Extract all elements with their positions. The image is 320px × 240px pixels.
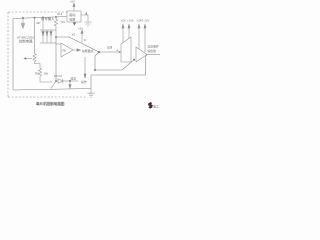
svg-text:电工: 电工 <box>153 104 159 109</box>
node J1 <box>22 17 24 19</box>
ground GND1 <box>84 22 92 26</box>
svg-text:+5V: +5V <box>78 26 83 30</box>
diode D1 <box>42 32 45 36</box>
svg-text:Rb: Rb <box>63 49 67 53</box>
wire rectifier bottom rail <box>40 42 56 44</box>
wire feedback outer <box>91 55 147 76</box>
arrow wire end <box>119 51 121 53</box>
wire center spine <box>55 37 57 81</box>
diode D1 branch wire <box>42 17 44 31</box>
op-amp U2 <box>61 43 73 57</box>
svg-text:+12V: +12V <box>127 19 134 23</box>
pin IC bottom <box>73 22 76 25</box>
comparator U3 <box>136 47 147 62</box>
svg-text:-12V: -12V <box>144 19 150 23</box>
svg-text:D: D <box>84 38 86 42</box>
wire diode out <box>63 80 78 82</box>
node RP top <box>34 17 35 18</box>
mux block A <box>121 37 131 62</box>
wire hook to rail <box>51 81 56 89</box>
node J4 <box>55 36 56 37</box>
wire base link <box>56 43 61 44</box>
node J3 <box>55 16 56 17</box>
svg-text:驱动: 驱动 <box>69 12 75 17</box>
arrow on wire <box>85 11 87 14</box>
wire output <box>147 54 160 56</box>
node J2 <box>42 17 43 18</box>
thermistor RT arrow <box>26 58 32 60</box>
svg-text:过流保护: 过流保护 <box>148 45 159 49</box>
arrow col2 <box>128 28 130 39</box>
signal arrow down <box>84 57 86 74</box>
svg-text:D5 C2: D5 C2 <box>54 74 62 78</box>
svg-text:IN 8: IN 8 <box>57 12 63 16</box>
wire rectifier top rail <box>40 29 56 31</box>
ground GND2 <box>88 89 95 98</box>
arrow input head <box>21 24 25 29</box>
thermistor RT body <box>33 54 40 69</box>
arrow input lead <box>22 18 24 23</box>
wire RP feed <box>34 18 36 54</box>
svg-text:续流: 续流 <box>71 77 77 81</box>
arrow IC top pin <box>73 7 75 12</box>
svg-text:+5V: +5V <box>70 0 75 4</box>
svg-text:单片机控制电路图: 单片机控制电路图 <box>36 101 65 106</box>
svg-text:动断触点: 动断触点 <box>82 48 94 53</box>
svg-text:RP: RP <box>37 21 41 25</box>
diode D3 branch wire <box>50 30 52 32</box>
svg-text:10k: 10k <box>44 72 49 76</box>
arrow col3 <box>138 28 140 49</box>
IC U1 box <box>67 11 81 22</box>
node spine bottom <box>55 80 56 81</box>
wire feedback outer drop <box>90 75 92 89</box>
node switch <box>98 51 100 53</box>
arrow output of U2 <box>73 49 77 51</box>
diode D2 <box>46 32 48 36</box>
arrow col4 <box>144 28 146 53</box>
svg-text:信号输入: 信号输入 <box>41 16 55 21</box>
arrow to rail <box>69 81 71 85</box>
svg-text:控制电路: 控制电路 <box>19 39 33 44</box>
wire bottom rail <box>13 89 91 91</box>
logo mark red <box>148 102 159 109</box>
diode D4 lead <box>56 80 58 82</box>
diode D3 <box>50 32 52 36</box>
diode D2 branch wire <box>46 30 48 32</box>
svg-text:输出级: 输出级 <box>148 49 157 53</box>
wire to comparator <box>99 51 121 53</box>
resistor R1 <box>54 17 57 37</box>
node J5 <box>94 69 96 71</box>
dashed enclosure box <box>8 12 86 97</box>
svg-text:动作: 动作 <box>81 79 87 84</box>
diode D4 <box>58 79 63 83</box>
node feedback <box>133 59 135 61</box>
resistor R2 <box>38 68 50 82</box>
svg-text:R1: R1 <box>62 20 66 24</box>
power arrow +5V <box>81 34 83 43</box>
wire main top bus <box>13 17 67 19</box>
node J6 <box>69 80 71 82</box>
svg-text:R2: R2 <box>35 72 39 76</box>
wire stub down <box>95 52 99 70</box>
wire left vertical bus <box>12 19 14 91</box>
svg-text:电路: 电路 <box>69 17 75 22</box>
svg-text:K1: K1 <box>72 33 76 37</box>
wire feedback inner <box>95 60 134 70</box>
switch lever K1 <box>56 37 99 52</box>
arrow col1 <box>122 28 124 43</box>
svg-text:+24V: +24V <box>137 19 144 23</box>
svg-text:+5V: +5V <box>121 19 126 23</box>
wire IC right pin <box>81 15 88 22</box>
svg-text:常闭: 常闭 <box>107 46 113 50</box>
